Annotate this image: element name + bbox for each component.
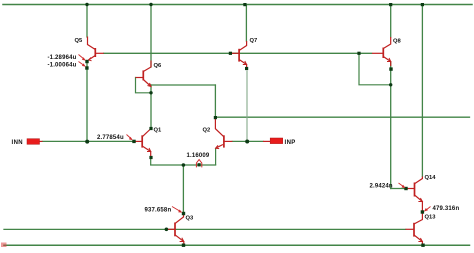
annotation marker circle 1.16009 [196, 160, 201, 168]
svg-text:937.658n: 937.658n [145, 208, 172, 214]
svg-text:Q7: Q7 [250, 38, 258, 44]
transistor Q14 [406, 177, 422, 212]
wire Q6 emitter to Q2 collector node [151, 84, 216, 86]
annotation arrow to Q5 marker 2 [79, 62, 86, 67]
faint terminal mark bottom left [1, 243, 7, 248]
wire base bus Q5-Q7-Q8 [104, 52, 372, 54]
junction square Q14 base pin [404, 187, 407, 190]
junction dot bus near Q3 base [165, 228, 169, 232]
svg-text:Q3: Q3 [186, 216, 195, 222]
svg-text:479.316n: 479.316n [433, 206, 460, 212]
svg-text:Q14: Q14 [425, 175, 437, 181]
junction square Q8 base loop tee [357, 52, 360, 55]
wire bottom rail VEE [4, 244, 470, 246]
wire output net y117 [215, 116, 469, 118]
junction square Q3 collector pin [182, 212, 185, 215]
junction square Q13 emitter on rail [421, 244, 424, 247]
junction square top rail x422 [421, 3, 424, 6]
transistor Q7 [230, 41, 246, 68]
junction square Q1 collector pin [149, 127, 152, 130]
svg-text:Q8: Q8 [393, 39, 402, 45]
transistor Q5 [88, 37, 104, 61]
junction square Q7 base pin [229, 52, 232, 55]
junction square Q1 base pin [132, 140, 135, 143]
wire long base bus to Q3 Q13 [4, 228, 406, 230]
junction dot Q8 base loop [389, 83, 392, 86]
svg-text:Q1: Q1 [154, 128, 163, 134]
transistor Q8 [372, 37, 391, 66]
junction square Q3 emitter on rail [182, 244, 185, 247]
svg-text:Q6: Q6 [154, 63, 163, 69]
wire top VCC rail [3, 4, 472, 6]
junction square top rail x391 [389, 3, 392, 6]
wire vertical V5 Q7 branch [245, 5, 247, 42]
transistor Q2 [215, 119, 232, 165]
wire vertical V2 Q6-Q1 branch [150, 5, 152, 129]
junction dot INN branch [85, 140, 89, 144]
junction square top rail x245 Q7 [243, 3, 246, 6]
wire vertical V1 Q5 branch [86, 5, 88, 142]
svg-text:2.9424n: 2.9424n [370, 184, 393, 190]
junction dot top rail x151 [149, 3, 152, 6]
svg-text:-1.00064u: -1.00064u [48, 63, 77, 69]
junction square Q8 emitter pin [389, 67, 392, 70]
junction square Q1 emitter pin [149, 156, 152, 159]
transistor Q3 [166, 214, 183, 246]
wire emitters Q1 Q2 join [151, 164, 216, 166]
svg-text:2.77854u: 2.77854u [97, 135, 124, 141]
junction square Q5 emitter marker 1 [85, 60, 88, 63]
annotation arrow to Q3 collector [172, 207, 182, 213]
wire vertical V8 to Q14 collector [421, 5, 423, 177]
wire vertical V4 Q2 collector [214, 85, 216, 118]
wire Q8 base loop [359, 53, 391, 85]
annotation arrow to Q1 base [127, 135, 133, 141]
annotation arrow to Q5 marker 1 [79, 55, 86, 61]
terminal INN [27, 139, 43, 145]
svg-text:1.16009: 1.16009 [187, 153, 210, 159]
junction dot top rail x87 [85, 3, 88, 6]
junction square Q13 collector Q14 emitter [421, 210, 424, 213]
junction square Q2 collector node [214, 116, 217, 119]
svg-text:Q13: Q13 [425, 215, 437, 221]
wire Q8 emitter to Q14 base [391, 188, 406, 190]
svg-text:INP: INP [285, 140, 296, 146]
wire vertical V3 to Q3 collector [182, 165, 184, 212]
transistor Q1 [134, 129, 151, 166]
terminal INP [263, 138, 283, 144]
transistor Q6 [136, 61, 152, 87]
svg-text:Q5: Q5 [75, 38, 84, 44]
wire INN to Q1 base [43, 140, 134, 142]
junction square Q5 emitter marker 2 [85, 66, 88, 69]
svg-text:-1.28964u: -1.28964u [48, 55, 77, 61]
annotation arrow to Q13 collector [424, 207, 431, 212]
svg-text:INN: INN [12, 140, 24, 146]
junction square Q7 emitter pin [245, 67, 248, 70]
wire Q6 base loop [136, 78, 152, 93]
annotation arrow to Q14 base [399, 183, 406, 188]
junction dot INP branch [245, 140, 249, 144]
svg-text:Q2: Q2 [203, 128, 211, 134]
junction dot emitter join [182, 163, 186, 167]
wire Q2 base to INP [232, 140, 263, 142]
junction dot Q6 base loop [149, 91, 152, 94]
wire vertical V7 Q8 emitter branch [390, 5, 392, 189]
transistor Q13 [406, 213, 423, 245]
